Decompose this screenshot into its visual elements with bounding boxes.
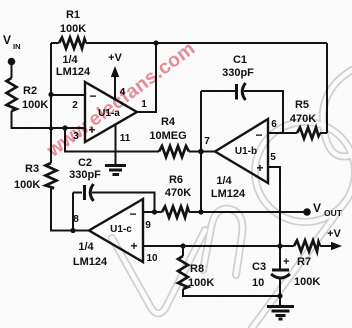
- svg-text:100K: 100K: [14, 179, 40, 191]
- resistor R2: [7, 78, 17, 111]
- svg-text:R5: R5: [295, 99, 309, 111]
- svg-text:R2: R2: [23, 85, 37, 97]
- capacitor C2: [73, 184, 94, 201]
- wire U1-c pin 9 row to R6: [143, 211, 162, 213]
- resistor R4: [159, 146, 189, 157]
- wire VIN terminal stem: [11, 64, 13, 78]
- capacitor C3: [271, 270, 290, 278]
- wire R8 bottom to C3 bottom node: [183, 289, 280, 296]
- svg-text:8: 8: [73, 214, 79, 225]
- svg-text:R4: R4: [161, 116, 176, 128]
- svg-text:R3: R3: [25, 163, 39, 175]
- wire right rail down to R5 row: [326, 43, 328, 133]
- op-amp U1-c: [89, 199, 143, 262]
- svg-text:330pF: 330pF: [69, 169, 101, 181]
- svg-text:330pF: 330pF: [222, 67, 254, 79]
- wire R4 to U1-b output tip: [189, 151, 215, 153]
- svg-text:−: −: [255, 128, 262, 142]
- label U1-b 1/4 LM124: [211, 175, 246, 200]
- label U1-a 1/4 LM124: [56, 54, 91, 78]
- svg-text:LM124: LM124: [73, 256, 108, 268]
- wire R8 top lead: [182, 246, 184, 256]
- junction C2 at pin 9 row: [152, 209, 157, 214]
- svg-text:10MEG: 10MEG: [149, 130, 186, 142]
- wire U1-b pin 6 row to R5: [268, 132, 297, 134]
- svg-text:10: 10: [146, 253, 158, 264]
- wire U1-a minus input from node A: [51, 94, 85, 96]
- wire left rail R3 to U1-c output row: [51, 188, 89, 231]
- +V arrow right: [331, 242, 342, 250]
- svg-text:−: −: [129, 207, 136, 221]
- +V arrow top: [111, 66, 119, 77]
- wire C3 bottom to ground: [279, 278, 281, 305]
- gray logo watermark: [112, 70, 352, 328]
- wire top feedback rail left of R1: [51, 42, 59, 44]
- svg-text:100K: 100K: [188, 277, 214, 289]
- svg-text:+V: +V: [108, 52, 122, 64]
- svg-text:+: +: [130, 239, 137, 253]
- svg-text:100K: 100K: [294, 276, 320, 288]
- svg-text:1/4: 1/4: [78, 241, 94, 253]
- svg-text:2: 2: [72, 100, 78, 111]
- node VIN label: [3, 33, 21, 51]
- svg-text:470K: 470K: [165, 187, 191, 199]
- capacitor C1: [237, 83, 246, 100]
- wire plus input node drop to R4 row: [65, 128, 159, 152]
- wire U1-b pin 5 drop to +V row and C3: [268, 167, 280, 269]
- svg-text:9: 9: [145, 220, 151, 231]
- svg-text:V: V: [3, 33, 11, 47]
- svg-text:5: 5: [270, 152, 276, 163]
- pink watermark www.elecfans.com: [42, 37, 199, 162]
- svg-text:100K: 100K: [22, 99, 48, 111]
- junction C2 drop at U1-c output: [70, 228, 75, 233]
- junction pin 5 node at +V row: [277, 243, 282, 248]
- svg-text:1/4: 1/4: [62, 54, 78, 66]
- svg-text:R1: R1: [66, 9, 80, 21]
- resistor R6: [162, 207, 189, 218]
- svg-text:V: V: [313, 201, 321, 215]
- wire left rail node A down to R3: [50, 43, 52, 163]
- svg-text:1/4: 1/4: [216, 175, 232, 187]
- junction C3 bottom node: [277, 293, 282, 298]
- wire R7 to +V arrow: [320, 245, 336, 247]
- wire C1 right lead down to pin 6 row: [244, 91, 283, 133]
- svg-text:100K: 100K: [60, 23, 86, 35]
- svg-text:10: 10: [252, 277, 264, 289]
- resistor R3: [46, 163, 57, 188]
- junction at node A minus input: [48, 92, 53, 97]
- wire C2 left drop to U1-c output wire: [72, 193, 74, 231]
- svg-text:1: 1: [141, 99, 147, 110]
- wire C1 left lead: [201, 90, 235, 92]
- svg-text:IN: IN: [13, 42, 21, 51]
- terminal VIN: [8, 58, 16, 66]
- junction plus input node: [62, 125, 67, 130]
- resistor R8: [178, 256, 188, 289]
- wire U1-a pin 4 supply stem: [114, 72, 116, 100]
- junction U1-b output node pin 7: [198, 149, 204, 155]
- svg-text:+: +: [283, 256, 289, 268]
- junction R8 top: [180, 243, 185, 248]
- svg-text:7: 7: [204, 136, 210, 147]
- wire U1-c pin 10 row to R7: [143, 245, 294, 247]
- wire U1-a pin 11 to ground: [115, 125, 117, 165]
- svg-text:LM124: LM124: [211, 188, 246, 200]
- svg-text:C2: C2: [78, 157, 92, 169]
- resistor R1: [59, 38, 86, 49]
- wire R2 bottom to U1-a plus input: [12, 111, 86, 128]
- ground at C3: [267, 307, 294, 320]
- svg-text:LM124: LM124: [56, 66, 91, 78]
- wire top feedback rail R1 to right rail: [86, 42, 327, 44]
- wire R6 to VOUT terminal: [189, 211, 307, 213]
- resistor R7: [294, 241, 320, 252]
- svg-text:R6: R6: [169, 174, 183, 186]
- junction U1-a output at top rail: [153, 40, 158, 45]
- ground at U1-a pin 11: [105, 166, 126, 175]
- terminal VOUT: [303, 208, 311, 216]
- label U1-c 1/4 LM124: [73, 241, 108, 268]
- svg-text:C1: C1: [233, 54, 247, 66]
- svg-text:−: −: [89, 89, 96, 103]
- op-amp U1-a: [85, 82, 137, 142]
- junction U1-b output at VOUT row: [198, 209, 203, 214]
- wire C2 right to U1-c pin 9 row: [92, 193, 155, 213]
- svg-text:U1-c: U1-c: [110, 224, 132, 235]
- wire U1-b output vertical C1-left to VOUT row: [200, 91, 202, 212]
- resistor R5: [297, 128, 320, 139]
- wire R5 to right rail: [320, 132, 327, 134]
- junction rail and R2 row crossing: [49, 126, 53, 130]
- svg-text:C3: C3: [252, 261, 266, 273]
- node VOUT label: [313, 201, 343, 218]
- op-amp U1-b: [215, 119, 268, 183]
- wire U1-a pin 1 output up to top rail: [137, 43, 156, 112]
- svg-text:11: 11: [120, 133, 131, 144]
